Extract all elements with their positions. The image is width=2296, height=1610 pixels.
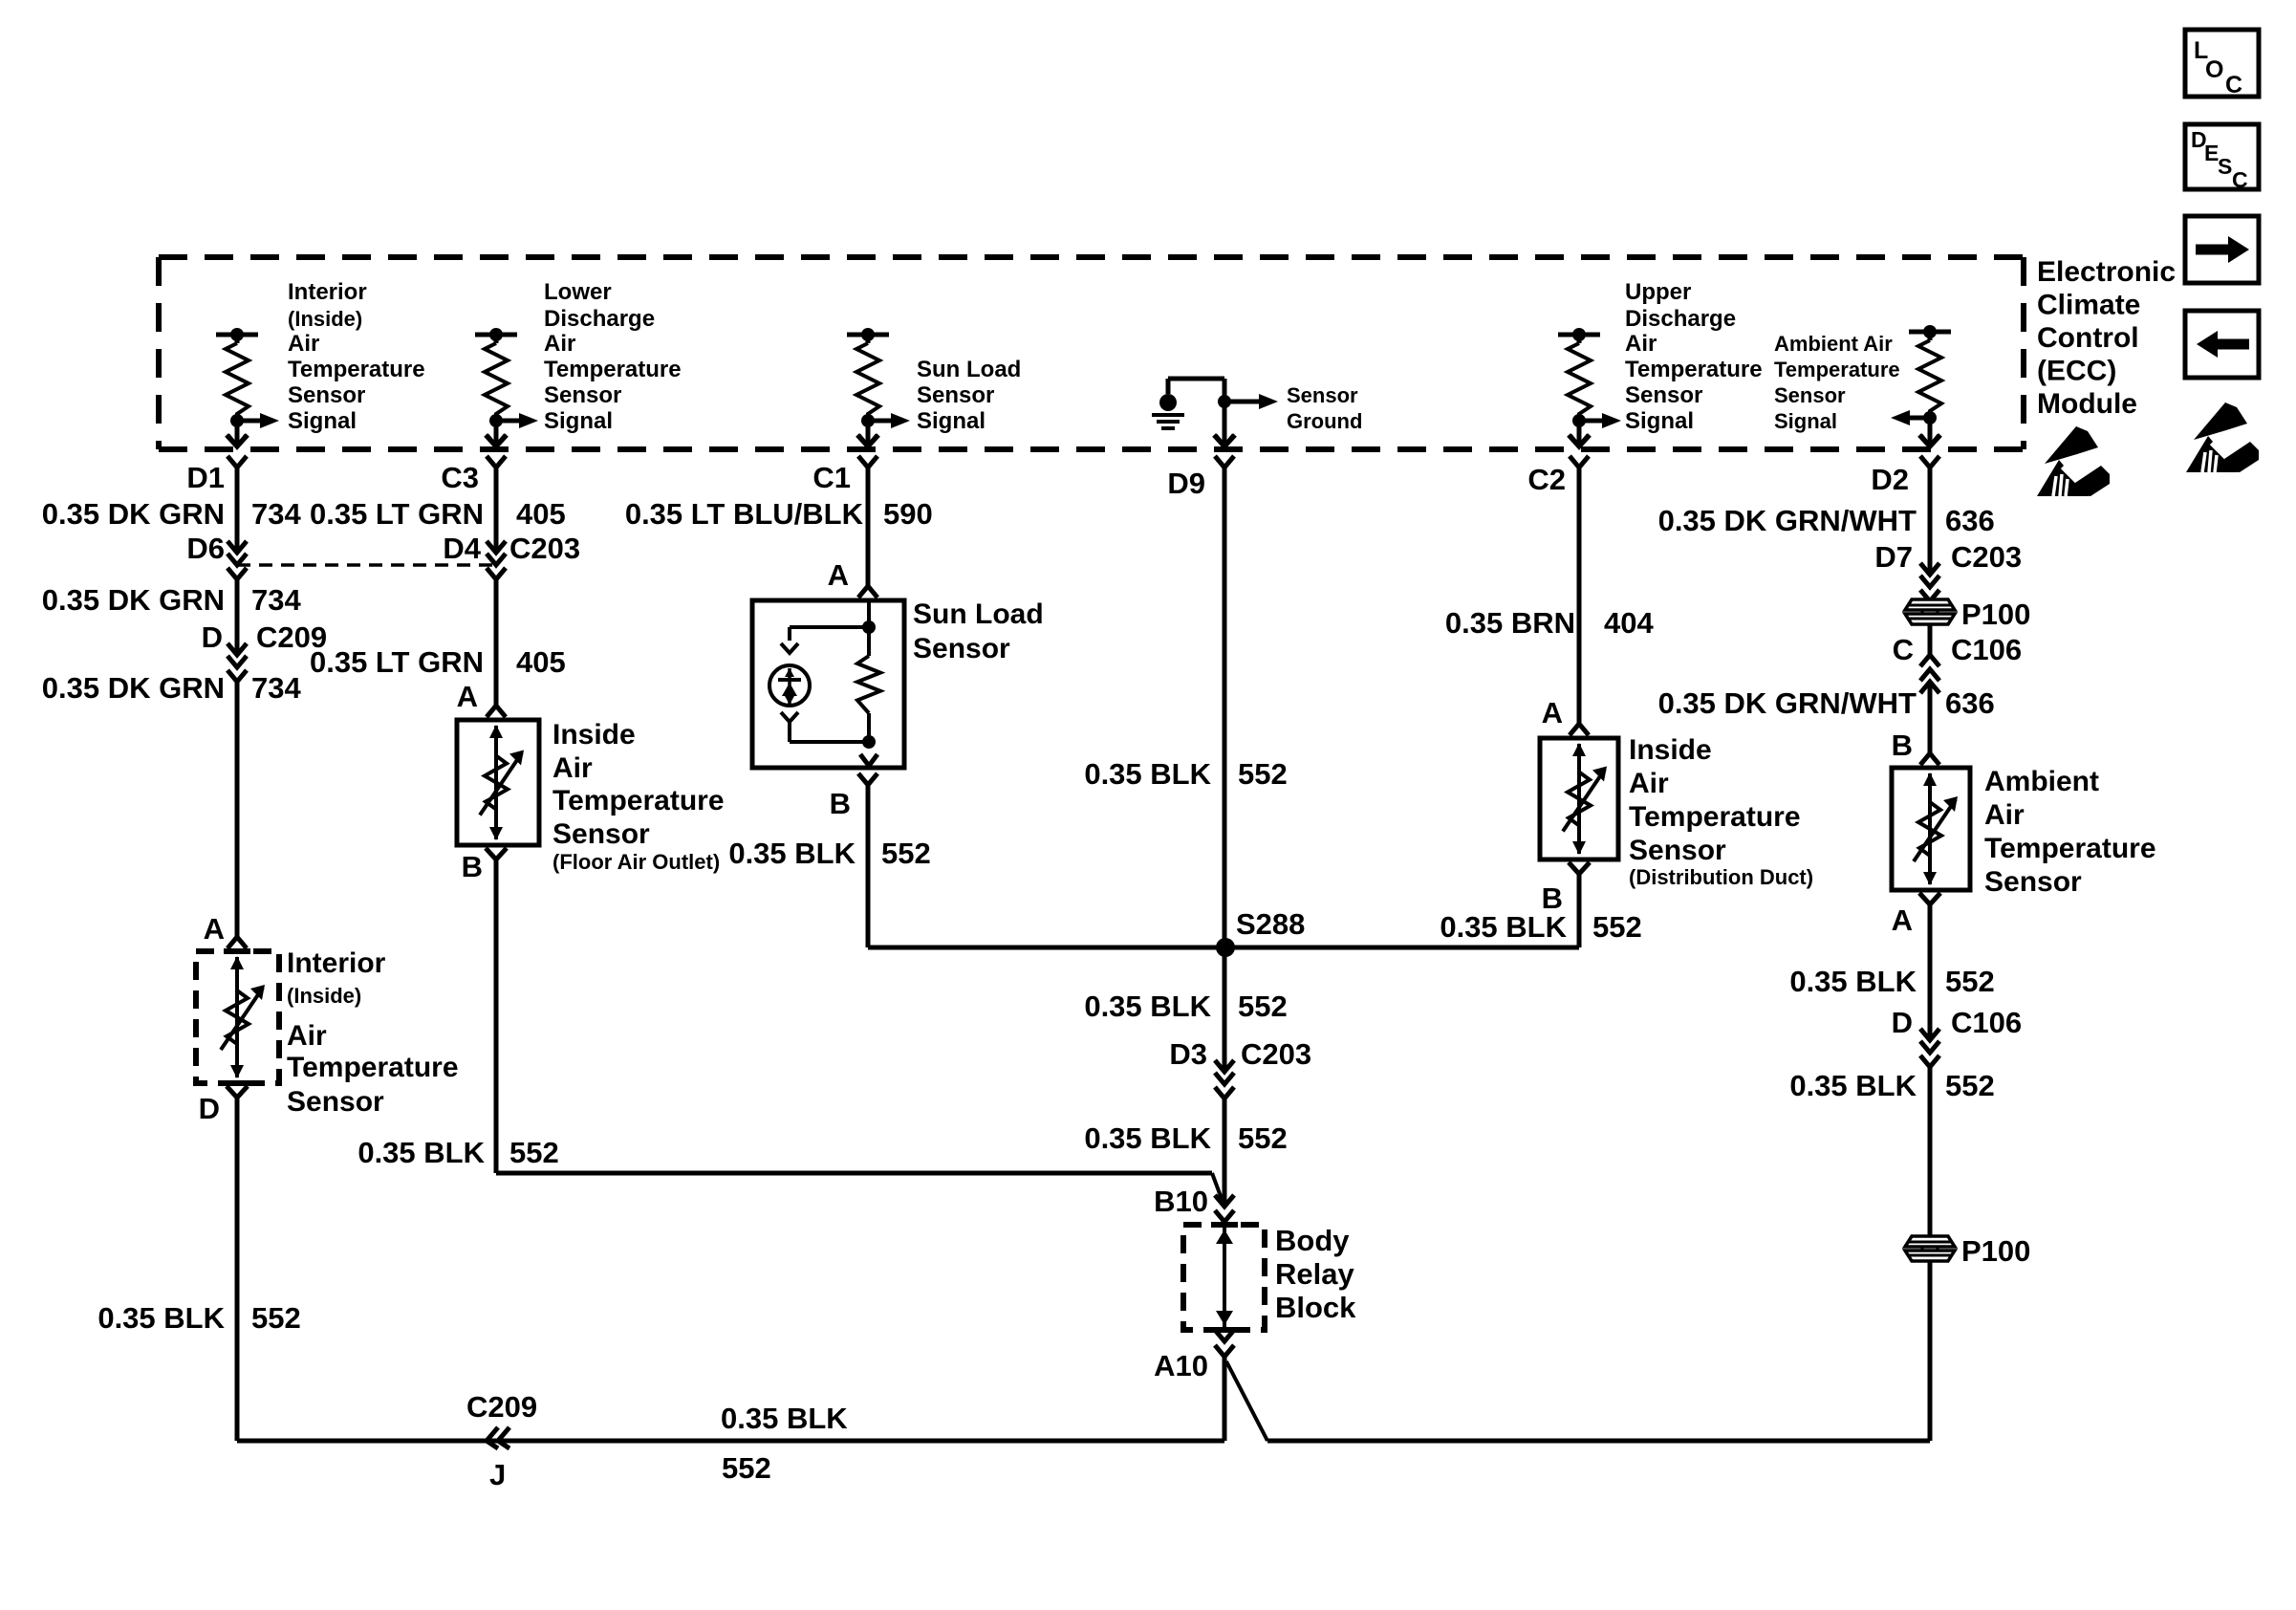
svg-text:Inside: Inside — [1629, 734, 1712, 766]
svg-text:Sensor: Sensor — [552, 818, 650, 850]
svg-text:552: 552 — [1945, 965, 1995, 998]
svg-text:Signal: Signal — [917, 408, 986, 434]
svg-text:B10: B10 — [1154, 1185, 1208, 1218]
svg-text:0.35 LT BLU/BLK: 0.35 LT BLU/BLK — [625, 497, 864, 531]
svg-text:Sensor: Sensor — [1287, 383, 1358, 407]
svg-text:Sensor: Sensor — [1984, 866, 2082, 898]
svg-text:405: 405 — [516, 497, 566, 531]
svg-text:Signal: Signal — [1625, 408, 1694, 434]
svg-text:Sensor: Sensor — [913, 633, 1010, 664]
svg-text:S: S — [2218, 154, 2232, 179]
svg-text:B: B — [462, 850, 483, 883]
svg-text:C2: C2 — [1527, 463, 1566, 496]
svg-text:Relay: Relay — [1275, 1257, 1354, 1291]
svg-text:Upper: Upper — [1625, 279, 1691, 305]
svg-text:D2: D2 — [1871, 463, 1909, 496]
svg-text:0.35 LT GRN: 0.35 LT GRN — [310, 645, 484, 679]
svg-text:O: O — [2205, 56, 2223, 83]
svg-text:Control: Control — [2037, 322, 2139, 354]
svg-text:Body: Body — [1275, 1224, 1350, 1257]
svg-text:D9: D9 — [1167, 467, 1205, 500]
svg-text:Ambient Air: Ambient Air — [1774, 332, 1893, 356]
svg-text:590: 590 — [883, 497, 933, 531]
svg-text:734: 734 — [251, 671, 301, 705]
svg-text:0.35 BLK: 0.35 BLK — [357, 1136, 485, 1169]
svg-text:Temperature: Temperature — [1774, 358, 1900, 381]
svg-text:D7: D7 — [1874, 540, 1913, 574]
svg-text:0.35 BLK: 0.35 BLK — [1084, 757, 1211, 791]
svg-text:0.35 DK GRN: 0.35 DK GRN — [42, 671, 225, 705]
svg-text:0.35 BLK: 0.35 BLK — [721, 1402, 848, 1435]
svg-text:D: D — [1892, 1006, 1913, 1039]
svg-text:Ambient: Ambient — [1984, 766, 2099, 797]
svg-text:A10: A10 — [1154, 1349, 1208, 1382]
svg-text:D: D — [199, 1092, 220, 1125]
svg-text:Air: Air — [1984, 799, 2025, 831]
svg-text:552: 552 — [1238, 990, 1288, 1023]
svg-text:0.35 BLK: 0.35 BLK — [1440, 910, 1567, 944]
svg-text:552: 552 — [1945, 1069, 1995, 1102]
svg-text:(Floor Air Outlet): (Floor Air Outlet) — [552, 850, 720, 874]
svg-text:0.35 BLK: 0.35 BLK — [1789, 965, 1917, 998]
svg-text:0.35 BLK: 0.35 BLK — [1789, 1069, 1917, 1102]
svg-text:Sun Load: Sun Load — [917, 357, 1021, 382]
svg-text:Temperature: Temperature — [1984, 833, 2156, 864]
svg-text:0.35 BLK: 0.35 BLK — [728, 837, 856, 870]
svg-text:(Inside): (Inside) — [287, 984, 361, 1008]
svg-text:Block: Block — [1275, 1291, 1356, 1324]
svg-text:552: 552 — [1592, 910, 1642, 944]
svg-text:0.35 LT GRN: 0.35 LT GRN — [310, 497, 484, 531]
svg-text:Climate: Climate — [2037, 290, 2140, 321]
svg-text:C: C — [2225, 72, 2242, 98]
svg-text:A: A — [457, 680, 478, 713]
svg-text:Electronic: Electronic — [2037, 256, 2176, 288]
svg-text:Sensor: Sensor — [287, 1086, 384, 1118]
svg-text:J: J — [489, 1458, 506, 1491]
svg-text:Sensor: Sensor — [917, 382, 994, 408]
svg-text:552: 552 — [1238, 757, 1288, 791]
svg-text:(ECC): (ECC) — [2037, 356, 2116, 387]
svg-text:Air: Air — [288, 331, 319, 357]
svg-text:Module: Module — [2037, 388, 2137, 420]
svg-text:S288: S288 — [1236, 907, 1305, 941]
svg-text:0.35 DK GRN/WHT: 0.35 DK GRN/WHT — [1658, 504, 1917, 537]
svg-text:0.35 BLK: 0.35 BLK — [1084, 1121, 1211, 1155]
svg-text:Temperature: Temperature — [1629, 801, 1801, 833]
svg-text:Interior: Interior — [288, 279, 367, 305]
svg-text:552: 552 — [722, 1451, 771, 1485]
svg-text:Temperature: Temperature — [1625, 357, 1763, 382]
svg-text:D3: D3 — [1169, 1037, 1207, 1071]
svg-text:C106: C106 — [1951, 1006, 2022, 1039]
svg-text:C209: C209 — [466, 1390, 537, 1424]
svg-text:Air: Air — [544, 331, 575, 357]
svg-text:Sensor: Sensor — [1625, 382, 1702, 408]
svg-text:Temperature: Temperature — [288, 357, 425, 382]
svg-text:Air: Air — [552, 752, 593, 784]
svg-text:A: A — [828, 558, 849, 592]
svg-text:552: 552 — [1238, 1121, 1288, 1155]
svg-text:C1: C1 — [812, 461, 851, 494]
svg-text:552: 552 — [881, 837, 931, 870]
svg-text:Air: Air — [1629, 768, 1669, 799]
svg-text:D6: D6 — [186, 532, 225, 565]
svg-text:734: 734 — [251, 497, 301, 531]
svg-text:A: A — [1892, 903, 1913, 937]
svg-text:0.35 BLK: 0.35 BLK — [97, 1301, 225, 1335]
svg-text:0.35 DK GRN/WHT: 0.35 DK GRN/WHT — [1658, 686, 1917, 720]
svg-text:D4: D4 — [443, 532, 481, 565]
svg-text:Signal: Signal — [544, 408, 613, 434]
svg-text:405: 405 — [516, 645, 566, 679]
svg-text:C: C — [1893, 633, 1914, 666]
svg-text:Signal: Signal — [1774, 409, 1837, 433]
svg-text:Interior: Interior — [287, 947, 386, 979]
svg-text:Temperature: Temperature — [544, 357, 682, 382]
svg-text:552: 552 — [509, 1136, 559, 1169]
svg-text:Discharge: Discharge — [544, 306, 655, 332]
svg-text:0.35 BRN: 0.35 BRN — [1445, 606, 1575, 640]
svg-text:734: 734 — [251, 583, 301, 617]
svg-text:Temperature: Temperature — [287, 1052, 459, 1083]
svg-text:404: 404 — [1604, 606, 1654, 640]
svg-text:0.35 DK GRN: 0.35 DK GRN — [42, 583, 225, 617]
svg-text:C203: C203 — [509, 532, 580, 565]
svg-text:636: 636 — [1945, 504, 1995, 537]
svg-text:Sun Load: Sun Load — [913, 598, 1044, 630]
svg-text:Sensor: Sensor — [1629, 835, 1726, 866]
svg-text:552: 552 — [251, 1301, 301, 1335]
svg-text:Air: Air — [287, 1020, 327, 1052]
svg-text:Sensor: Sensor — [1774, 383, 1846, 407]
svg-text:(Distribution Duct): (Distribution Duct) — [1629, 865, 1813, 889]
svg-text:C: C — [2232, 167, 2248, 192]
svg-text:D: D — [202, 620, 223, 654]
svg-text:P100: P100 — [1961, 598, 2030, 631]
svg-text:Temperature: Temperature — [552, 785, 725, 816]
svg-text:P100: P100 — [1961, 1234, 2030, 1268]
svg-text:Sensor: Sensor — [544, 382, 621, 408]
svg-text:A: A — [204, 912, 225, 946]
svg-text:C203: C203 — [1241, 1037, 1311, 1071]
svg-text:(Inside): (Inside) — [288, 307, 362, 331]
svg-text:Air: Air — [1625, 331, 1657, 357]
svg-text:C3: C3 — [441, 461, 479, 494]
svg-text:0.35 BLK: 0.35 BLK — [1084, 990, 1211, 1023]
svg-text:Sensor: Sensor — [288, 382, 365, 408]
svg-text:636: 636 — [1945, 686, 1995, 720]
svg-text:B: B — [1892, 729, 1913, 762]
svg-text:Ground: Ground — [1287, 409, 1362, 433]
svg-text:C106: C106 — [1951, 633, 2022, 666]
svg-text:Signal: Signal — [288, 408, 357, 434]
svg-text:Lower: Lower — [544, 279, 612, 305]
svg-text:C203: C203 — [1951, 540, 2022, 574]
svg-text:D1: D1 — [186, 461, 225, 494]
svg-text:0.35 DK GRN: 0.35 DK GRN — [42, 497, 225, 531]
svg-text:Discharge: Discharge — [1625, 306, 1736, 332]
svg-text:B: B — [830, 787, 851, 820]
svg-text:A: A — [1542, 696, 1563, 729]
svg-text:Inside: Inside — [552, 719, 636, 751]
